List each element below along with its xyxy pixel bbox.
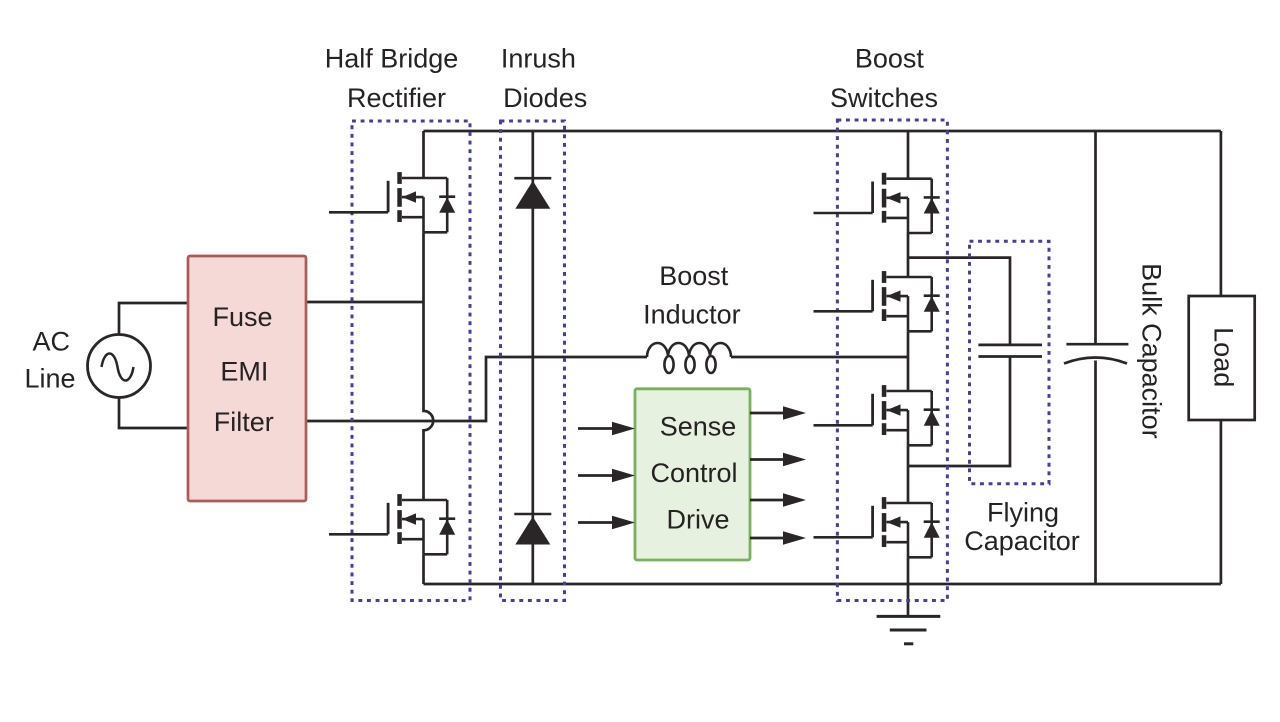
svg-text:Load: Load bbox=[1208, 327, 1238, 387]
boost vertical M2-M3 bbox=[907, 331, 910, 391]
dashed box: flying capacitor bbox=[970, 241, 1050, 483]
half-bridge vertical middle with hop bbox=[424, 232, 434, 500]
svg-text:Filter: Filter bbox=[214, 407, 274, 437]
flying capacitor bottom wire bbox=[908, 357, 1010, 467]
wire AC top bbox=[119, 303, 188, 335]
svg-text:Fuse: Fuse bbox=[212, 302, 272, 332]
svg-text:Boost: Boost bbox=[659, 261, 729, 291]
bulk capacitor wire bottom bbox=[1094, 361, 1097, 585]
wire inductor to boost mid node bbox=[731, 356, 908, 359]
bottom bus bbox=[424, 583, 1221, 586]
flying capacitor top wire bbox=[908, 258, 1010, 345]
diode D1 inrush top bbox=[514, 178, 551, 209]
right bus to load bbox=[1220, 131, 1223, 296]
Fuse EMI Filter box bbox=[188, 256, 306, 501]
wire EMI out top bbox=[306, 301, 424, 304]
flying capacitor plates bbox=[978, 344, 1042, 347]
dashed box: inrush diodes bbox=[501, 121, 565, 601]
bulk capacitor wire top bbox=[1094, 131, 1097, 344]
svg-text:Inrush: Inrush bbox=[501, 44, 576, 74]
Load box bbox=[1189, 296, 1255, 420]
input arrows to controller bbox=[578, 422, 635, 530]
wire EMI out bottom bbox=[306, 357, 647, 421]
diode D2 inrush bottom bbox=[514, 514, 551, 545]
top bus bbox=[424, 130, 1221, 133]
inrush diode branch bbox=[531, 131, 534, 584]
MOSFET Q1 half-bridge top bbox=[329, 172, 455, 232]
svg-text:Sense: Sense bbox=[660, 411, 737, 441]
svg-text:Half Bridge: Half Bridge bbox=[325, 44, 459, 74]
half-bridge vertical upper bbox=[422, 131, 425, 178]
svg-text:AC: AC bbox=[33, 327, 71, 357]
svg-text:Line: Line bbox=[24, 364, 75, 394]
svg-text:Control: Control bbox=[650, 458, 737, 488]
MOSFET Q2 half-bridge bottom bbox=[329, 494, 455, 554]
MOSFET Q5 boost 3 bbox=[814, 385, 940, 445]
svg-text:Drive: Drive bbox=[666, 505, 729, 535]
svg-text:Switches: Switches bbox=[830, 83, 938, 113]
svg-text:Rectifier: Rectifier bbox=[347, 83, 446, 113]
boost inductor bbox=[647, 343, 731, 373]
dashed box: half bridge rectifier bbox=[352, 121, 470, 601]
svg-text:Capacitor: Capacitor bbox=[964, 526, 1080, 556]
Sense Control Drive box bbox=[635, 389, 750, 560]
AC source bbox=[88, 335, 151, 398]
bulk capacitor curved plate bbox=[1064, 358, 1127, 364]
MOSFET Q3 boost 1 bbox=[814, 173, 940, 233]
svg-text:Diodes: Diodes bbox=[503, 83, 587, 113]
ground symbol bbox=[877, 616, 941, 643]
boost vertical bottom to ground bbox=[907, 557, 910, 616]
boost vertical M3-M4 bbox=[907, 445, 910, 503]
svg-text:Flying: Flying bbox=[987, 498, 1059, 528]
wire AC bottom bbox=[119, 397, 188, 428]
svg-text:Bulk Capacitor: Bulk Capacitor bbox=[1136, 263, 1166, 439]
half-bridge vertical lower bbox=[422, 554, 425, 584]
output arrows from controller bbox=[750, 406, 806, 545]
svg-text:Inductor: Inductor bbox=[643, 300, 741, 330]
bulk capacitor top plate bbox=[1066, 343, 1128, 346]
MOSFET Q4 boost 2 bbox=[814, 271, 940, 331]
svg-text:Boost: Boost bbox=[855, 44, 925, 74]
load to bottom bus bbox=[1220, 420, 1223, 584]
dashed box: boost switches bbox=[837, 120, 947, 601]
boost vertical top bbox=[907, 131, 910, 179]
MOSFET Q6 boost 4 bbox=[814, 497, 940, 557]
boost vertical M1-M2 bbox=[907, 233, 910, 277]
svg-text:EMI: EMI bbox=[220, 357, 268, 387]
